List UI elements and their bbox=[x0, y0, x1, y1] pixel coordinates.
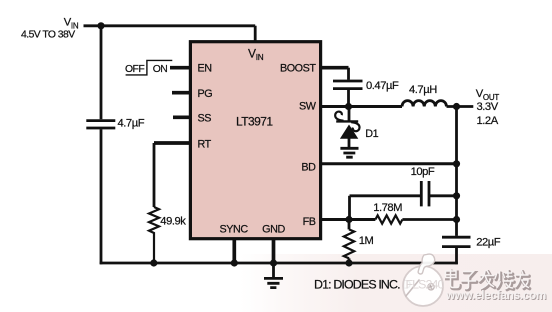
svg-text:4.7µF: 4.7µF bbox=[118, 117, 145, 129]
svg-text:VOUT: VOUT bbox=[476, 88, 500, 102]
svg-text:OFF: OFF bbox=[125, 64, 144, 75]
svg-text:1.78M: 1.78M bbox=[373, 202, 402, 214]
svg-text:BD: BD bbox=[301, 161, 316, 173]
svg-text:4.7µH: 4.7µH bbox=[409, 84, 437, 96]
svg-text:10pF: 10pF bbox=[411, 166, 435, 178]
svg-text:GND: GND bbox=[262, 224, 285, 236]
svg-text:SW: SW bbox=[299, 101, 317, 113]
svg-text:SS: SS bbox=[198, 113, 212, 125]
svg-text:LT3971: LT3971 bbox=[236, 115, 273, 129]
svg-text:1M: 1M bbox=[359, 235, 374, 247]
svg-text:VIN: VIN bbox=[64, 17, 79, 31]
svg-text:0.47µF: 0.47µF bbox=[366, 80, 399, 92]
svg-text:BOOST: BOOST bbox=[280, 63, 316, 75]
svg-text:PG: PG bbox=[198, 88, 213, 100]
svg-text:EN: EN bbox=[198, 63, 212, 75]
svg-text:www.elecfans.com: www.elecfans.com bbox=[445, 289, 546, 302]
svg-text:D1: DIODES INC. D: D1: DIODES INC. D bbox=[314, 278, 411, 292]
svg-text:1.2A: 1.2A bbox=[477, 115, 499, 127]
svg-text:4.5V TO 38V: 4.5V TO 38V bbox=[21, 30, 75, 41]
svg-text:RT: RT bbox=[198, 139, 212, 151]
svg-text:ON: ON bbox=[153, 64, 168, 75]
svg-text:3.3V: 3.3V bbox=[477, 101, 499, 113]
svg-text:SYNC: SYNC bbox=[219, 224, 248, 236]
svg-text:FB: FB bbox=[303, 216, 316, 228]
svg-text:49.9k: 49.9k bbox=[160, 215, 186, 227]
svg-text:22µF: 22µF bbox=[476, 237, 501, 249]
svg-text:D1: D1 bbox=[365, 128, 378, 140]
svg-text:FLS240: FLS240 bbox=[406, 278, 445, 292]
